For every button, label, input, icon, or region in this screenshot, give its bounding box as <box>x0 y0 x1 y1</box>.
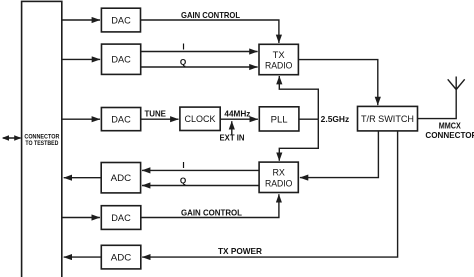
svg-text:2.5GHz: 2.5GHz <box>321 114 350 124</box>
wire: ADC U11 to connector <box>64 256 102 258</box>
wire: Q net, RX RADIO to ADC U9 <box>142 177 259 186</box>
RX RADIO U8 <box>259 162 298 192</box>
svg-text:TUNE: TUNE <box>144 110 166 119</box>
wire: bidirectional testbed link <box>2 135 22 140</box>
svg-text:Q: Q <box>180 58 187 67</box>
DAC U10 (RX gain control DAC) <box>101 206 141 230</box>
wire: TX RADIO output to T/R SWITCH <box>298 60 377 106</box>
label: MMCX CONNECTOR <box>425 121 474 140</box>
wire: 44MHz net, CLOCK to PLL <box>220 109 258 119</box>
svg-text:I: I <box>182 161 184 170</box>
wire: Q net, DAC U2 to TX RADIO <box>141 58 258 67</box>
DAC U2 (TX I/Q DAC) <box>102 44 141 74</box>
DAC U4 (tune DAC) <box>101 108 140 131</box>
svg-text:CONNECTOR: CONNECTOR <box>425 131 474 140</box>
svg-text:TX: TX <box>273 50 285 60</box>
svg-text:Q: Q <box>180 177 187 186</box>
wire: GAIN CONTROL net, DAC U10 to RX RADIO bottom <box>141 194 279 217</box>
svg-text:GAIN CONTROL: GAIN CONTROL <box>181 208 242 217</box>
svg-text:TO TESTBED: TO TESTBED <box>25 140 58 147</box>
antenna ANT1 <box>448 77 465 90</box>
DAC U1 (TX gain control DAC) <box>101 8 140 32</box>
wire: TUNE net, DAC U4 to CLOCK <box>141 110 179 120</box>
wire: GAIN CONTROL net, DAC U1 to TX RADIO top <box>141 11 279 43</box>
svg-text:RADIO: RADIO <box>265 61 293 71</box>
svg-text:TX POWER: TX POWER <box>218 247 262 256</box>
TX RADIO U3 <box>259 44 298 74</box>
wire: T/R SWITCH to antenna / MMCX connector <box>418 90 457 119</box>
wire: connector to DAC U4 <box>62 118 100 120</box>
wire: ADC U9 to connector <box>64 177 101 179</box>
svg-text:ADC: ADC <box>111 173 132 184</box>
svg-text:DAC: DAC <box>111 213 131 224</box>
wire: 2.5GHz LO net, PLL output <box>299 114 349 124</box>
svg-text:GAIN CONTROL: GAIN CONTROL <box>181 11 240 20</box>
wire: LO to RX RADIO top <box>279 119 318 161</box>
wire: I net, DAC U2 to TX RADIO <box>141 42 258 51</box>
ADC U11 (TX power ADC) <box>101 245 141 269</box>
wire: connector to DAC U2 <box>62 58 100 60</box>
svg-text:MMCX: MMCX <box>439 121 461 130</box>
wire: LO to TX RADIO bottom <box>279 76 318 119</box>
svg-text:44MHz: 44MHz <box>224 109 250 118</box>
ADC U9 (RX I/Q ADC) <box>101 163 140 193</box>
svg-text:RADIO: RADIO <box>265 178 293 188</box>
wire: TX POWER net, T/R SWITCH to ADC U11 <box>142 131 397 257</box>
wire: I net, RX RADIO to ADC U9 <box>142 161 259 170</box>
svg-text:I: I <box>182 42 184 51</box>
svg-text:RX: RX <box>272 168 285 178</box>
svg-text:DAC: DAC <box>111 115 131 126</box>
PLL U6 <box>259 107 299 131</box>
wire: connector to DAC U1 <box>62 19 100 21</box>
svg-text:EXT IN: EXT IN <box>220 134 245 143</box>
svg-text:T/R SWITCH: T/R SWITCH <box>361 114 414 125</box>
T/R SWITCH U7 <box>358 106 418 130</box>
wire: T/R SWITCH to RX RADIO input <box>300 131 379 178</box>
wire: connector to DAC U10 <box>62 217 100 219</box>
svg-text:PLL: PLL <box>271 114 288 125</box>
connector J1: CONNECTOR TO TESTBED <box>22 1 62 277</box>
svg-text:ADC: ADC <box>111 253 132 264</box>
CLOCK U5 <box>180 107 220 130</box>
svg-text:DAC: DAC <box>111 55 131 66</box>
svg-text:CLOCK: CLOCK <box>185 114 217 125</box>
wire: EXT IN input to 44MHz net <box>220 121 245 142</box>
svg-text:DAC: DAC <box>111 15 131 26</box>
